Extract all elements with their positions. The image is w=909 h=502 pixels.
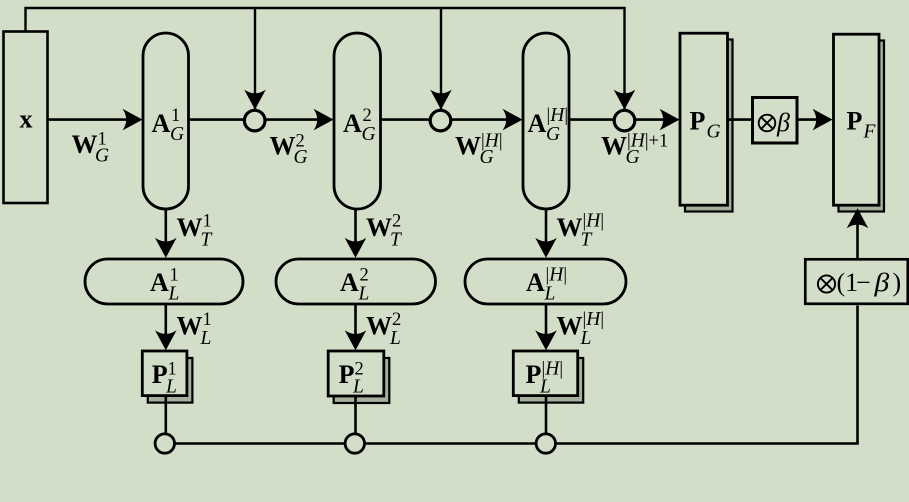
- node n3: [614, 110, 635, 131]
- svg-text:A: A: [343, 109, 362, 138]
- svg-text:(1: (1: [837, 268, 859, 297]
- svg-text:1: 1: [170, 266, 179, 286]
- arrowhead into node n2 from top: [430, 90, 452, 110]
- wire n5 to n6: [365, 442, 537, 445]
- svg-text:L: L: [389, 328, 401, 349]
- node n4: [155, 434, 174, 453]
- svg-text:W: W: [557, 312, 583, 341]
- svg-text:L: L: [580, 328, 592, 349]
- node n6: [536, 434, 555, 453]
- arrowhead into A_L3: [535, 238, 557, 258]
- svg-text:A: A: [150, 268, 169, 297]
- otimes symbol in (1-beta) box: [818, 275, 835, 292]
- svg-text:|H|: |H|: [546, 265, 568, 286]
- svg-text:W: W: [366, 213, 392, 242]
- wire n6 to riser: [556, 306, 858, 444]
- wire (1-beta) box up to P_F: [856, 221, 859, 259]
- svg-text:L: L: [358, 284, 370, 305]
- block otimes-beta: [753, 98, 798, 144]
- arrowhead into A_L2: [345, 238, 367, 258]
- svg-text:T: T: [390, 230, 402, 251]
- wire n3 to P_G: [635, 118, 669, 121]
- svg-text:L: L: [165, 376, 177, 397]
- svg-text:L: L: [200, 328, 212, 349]
- svg-text:): ): [893, 268, 902, 297]
- svg-text:1: 1: [171, 106, 180, 126]
- svg-text:G: G: [362, 124, 376, 145]
- wire P_G to beta box: [728, 118, 753, 121]
- wire A_G1 down to A_L1: [165, 209, 168, 246]
- block P_L^|H|: [513, 351, 577, 396]
- wire X to A_G1: [48, 118, 131, 121]
- svg-text:1: 1: [203, 310, 212, 330]
- svg-text:G: G: [95, 146, 109, 167]
- svg-text:x: x: [20, 105, 33, 134]
- svg-text:2: 2: [363, 106, 372, 126]
- arrowhead into P_L3: [535, 330, 557, 350]
- arrowhead into P_G: [660, 109, 680, 131]
- svg-text:P: P: [690, 107, 706, 136]
- wire P_L3 down to n6: [545, 396, 548, 434]
- svg-text:|H|: |H|: [547, 105, 569, 126]
- svg-text:W: W: [72, 130, 98, 159]
- svg-text:W: W: [270, 132, 296, 161]
- svg-text:G: G: [707, 122, 721, 143]
- svg-text:A: A: [152, 109, 171, 138]
- svg-text:β: β: [776, 108, 790, 137]
- svg-text:β: β: [873, 269, 889, 298]
- wire n1 to A_G2: [265, 118, 322, 121]
- svg-text:A: A: [526, 268, 545, 297]
- arrowhead into A_G2: [314, 109, 334, 131]
- arrowhead into A_G1: [123, 109, 143, 131]
- arrowhead into P_L1: [155, 330, 177, 350]
- pill A_G^|H|: [523, 33, 569, 209]
- arrowhead into A_G3: [503, 109, 523, 131]
- node n1: [244, 110, 265, 131]
- block otimes-(1-beta): [805, 259, 908, 304]
- svg-text:1: 1: [203, 212, 212, 232]
- svg-text:−: −: [856, 268, 871, 297]
- wire A_G2 to n2: [381, 118, 432, 121]
- stadium A_L^1: [85, 259, 243, 304]
- wire A_L2 down to P_L2: [354, 304, 357, 338]
- wire A_L3 down to P_L3: [545, 304, 548, 338]
- stadium A_L^2: [276, 259, 436, 304]
- svg-text:T: T: [581, 230, 593, 251]
- svg-text:L: L: [539, 376, 551, 397]
- arrowhead into node n3 from top: [614, 90, 636, 110]
- wire A_L1 down to P_L1: [165, 304, 168, 338]
- svg-text:W: W: [366, 312, 392, 341]
- svg-text:T: T: [201, 230, 213, 251]
- pill A_G^2: [334, 33, 381, 209]
- svg-text:W: W: [601, 132, 627, 161]
- svg-text:G: G: [480, 147, 494, 168]
- svg-text:W: W: [455, 132, 481, 161]
- node n2: [430, 110, 451, 131]
- stadium A_L^|H|: [465, 259, 626, 304]
- block X input: [4, 32, 48, 204]
- svg-text:G: G: [294, 147, 308, 168]
- block P_F: [834, 34, 880, 205]
- svg-text:L: L: [544, 284, 556, 305]
- wire n2 to A_G3: [451, 118, 512, 121]
- svg-text:2: 2: [360, 266, 369, 286]
- wire n4 to n5: [175, 442, 346, 445]
- wire A_G3 down to A_L3: [545, 209, 548, 246]
- svg-text:L: L: [352, 376, 364, 397]
- svg-text:|H|: |H|: [583, 211, 605, 232]
- svg-text:F: F: [863, 122, 877, 143]
- arrowhead into A_L1: [155, 238, 177, 258]
- svg-text:W: W: [557, 213, 583, 242]
- svg-text:G: G: [546, 124, 560, 145]
- block P_L^2: [328, 351, 384, 396]
- shadow of P_L^2: [334, 358, 390, 403]
- node n5: [345, 434, 364, 453]
- wire P_L1 down to n4: [165, 396, 168, 434]
- wire beta box to P_F: [798, 118, 822, 121]
- svg-text:L: L: [168, 284, 180, 305]
- wire A_G1 to n1: [189, 118, 246, 121]
- arrowhead into P_F bottom: [847, 208, 869, 228]
- wire top bus: [26, 8, 625, 109]
- arrowhead into P_L2: [345, 330, 367, 350]
- arrowhead into P_F: [813, 109, 833, 131]
- otimes symbol in beta box: [759, 115, 776, 132]
- svg-text:2: 2: [392, 212, 401, 232]
- shadow of P_F: [839, 41, 885, 212]
- svg-text:G: G: [170, 124, 184, 145]
- shadow of P_G: [685, 40, 733, 212]
- shadow of P_L^|H|: [519, 358, 583, 403]
- pill A_G^1: [143, 33, 189, 209]
- block P_G: [680, 33, 728, 205]
- svg-text:P: P: [847, 107, 863, 136]
- svg-text:W: W: [177, 213, 203, 242]
- svg-text:A: A: [340, 268, 359, 297]
- wire A_G3 to n3: [569, 118, 615, 121]
- shadow of P_L^1: [148, 358, 193, 403]
- wire A_G2 down to A_L2: [354, 209, 357, 246]
- svg-text:G: G: [626, 147, 640, 168]
- arrowhead into node n1 from top: [244, 90, 266, 110]
- svg-text:|H|: |H|: [583, 309, 605, 330]
- block P_L^1: [142, 351, 187, 396]
- svg-text:W: W: [177, 312, 203, 341]
- wire P_L2 down to n5: [354, 396, 357, 434]
- svg-text:A: A: [528, 109, 547, 138]
- svg-text:2: 2: [392, 310, 401, 330]
